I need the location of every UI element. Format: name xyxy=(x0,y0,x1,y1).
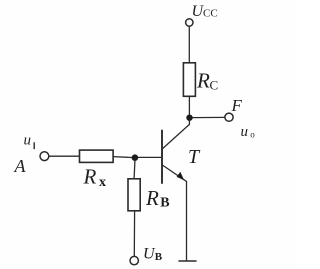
svg-text:B: B xyxy=(155,251,163,263)
wire RC to node F xyxy=(188,97,190,116)
wire base xyxy=(135,156,161,158)
svg-text:R: R xyxy=(196,68,210,92)
wire node to terminal F xyxy=(193,116,225,118)
transistor T emitter lead xyxy=(162,165,186,260)
svg-text:u: u xyxy=(241,124,249,140)
ground bar xyxy=(179,260,196,262)
wire Rx to base node xyxy=(113,156,132,159)
svg-text:o: o xyxy=(250,130,255,140)
terminal UB xyxy=(130,256,138,264)
svg-text:A: A xyxy=(14,156,27,176)
resistor RC xyxy=(183,63,195,97)
svg-text:B: B xyxy=(160,196,169,211)
terminal UCC xyxy=(186,19,193,26)
wire UCC to RC xyxy=(188,26,190,62)
wire node to RB xyxy=(133,161,136,179)
emitter arrowhead xyxy=(177,172,185,181)
svg-text:C: C xyxy=(210,78,219,93)
terminal A xyxy=(40,152,49,161)
svg-text:R: R xyxy=(145,186,159,210)
svg-text:T: T xyxy=(188,146,201,168)
resistor RB xyxy=(128,179,140,211)
svg-text:x: x xyxy=(99,175,106,190)
wire A to Rx xyxy=(49,155,80,157)
svg-text:CC: CC xyxy=(203,8,218,20)
svg-text:F: F xyxy=(231,96,243,115)
resistor Rx xyxy=(80,150,114,162)
svg-text:u: u xyxy=(24,133,32,149)
node junction base xyxy=(132,154,139,161)
transistor T base bar xyxy=(161,131,163,184)
svg-text:R: R xyxy=(83,165,97,189)
subscript bar of u_i xyxy=(33,143,35,149)
terminal F xyxy=(225,113,233,121)
transistor T collector lead xyxy=(162,121,189,149)
wire RB to UB terminal xyxy=(133,211,135,256)
node junction collector xyxy=(186,115,192,121)
